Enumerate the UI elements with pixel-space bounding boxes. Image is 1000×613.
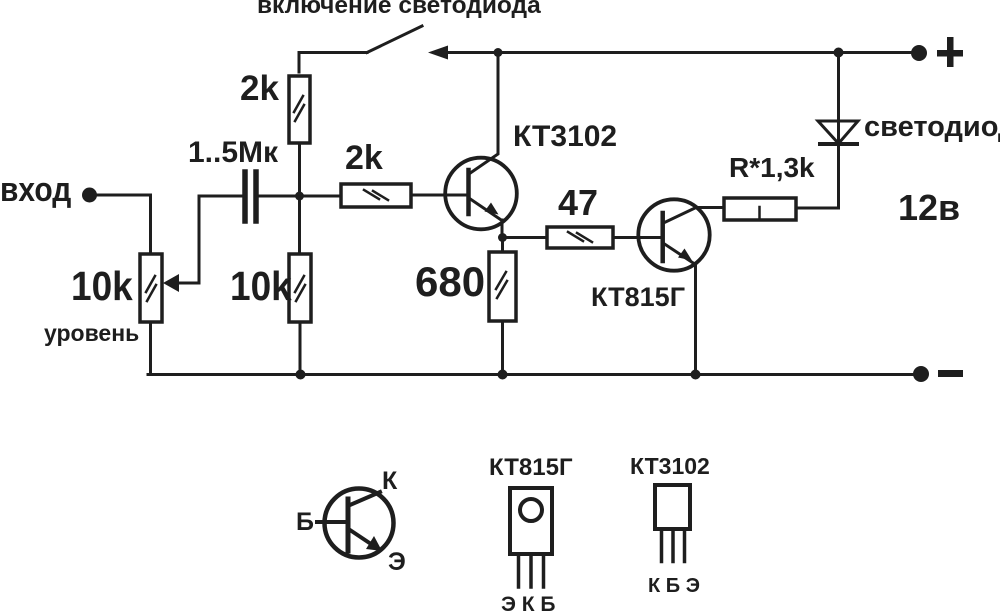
wire: VT2 emitter to - rail bbox=[694, 264, 697, 375]
svg-text:R*1,3k: R*1,3k bbox=[729, 152, 815, 183]
terminal - sign bbox=[938, 370, 963, 377]
resistor R4 hatch bbox=[364, 190, 388, 200]
KT815 package hole bbox=[520, 499, 542, 521]
LED VD1 cathode bar bbox=[820, 142, 857, 146]
resistor R7 tick bbox=[758, 207, 761, 218]
transistor VT1 collector bbox=[471, 53, 498, 173]
svg-text:уровень: уровень bbox=[44, 320, 139, 346]
resistor R3 hatch bbox=[295, 276, 305, 301]
wire: node B down to R5 bbox=[501, 238, 504, 253]
legend transistor symbol circle bbox=[325, 489, 394, 558]
transistor VT2 base bar bbox=[660, 213, 665, 261]
node B junction dot bbox=[498, 233, 507, 242]
svg-text:КТ815Г: КТ815Г bbox=[489, 454, 573, 481]
transistor VT1 emitter bbox=[471, 200, 502, 221]
svg-text:К: К bbox=[382, 467, 398, 495]
transistor VT1 base bar bbox=[466, 170, 471, 214]
resistor R7 R*1,3k body bbox=[724, 198, 796, 220]
terminal + sign bbox=[937, 50, 963, 57]
wire: R4 to VT1 base bbox=[411, 194, 469, 197]
legend emitter arrow bbox=[366, 536, 382, 551]
potentiometer R2 wiper arrow bbox=[163, 274, 179, 292]
terminal input dot bbox=[82, 188, 97, 203]
resistor R4 2k horizontal body bbox=[341, 184, 411, 207]
legend emitter line bbox=[350, 530, 374, 546]
legend base bar bbox=[346, 499, 351, 551]
wire: R5 bottom to - rail bbox=[501, 321, 504, 375]
potentiometer R2 hatch bbox=[146, 276, 156, 301]
wire: capacitor to node A bbox=[258, 195, 341, 198]
resistor R5 680 body bbox=[489, 252, 516, 321]
wire: + rail to LED bbox=[837, 53, 840, 145]
junction dot on - rail below R5 bbox=[498, 370, 508, 380]
KT815 package body bbox=[510, 488, 552, 554]
svg-text:1..5Мк: 1..5Мк bbox=[188, 136, 279, 169]
legend collector line bbox=[350, 492, 380, 505]
wire: R2 bottom to - rail bbox=[149, 322, 152, 375]
switch SA1 left wire bbox=[299, 53, 367, 73]
wire: input to potentiometer top bbox=[96, 195, 151, 254]
wire: emitter to node B bbox=[501, 220, 504, 238]
transistor VT2 collector bbox=[665, 208, 725, 223]
KT815 package legs bbox=[519, 554, 544, 587]
capacitor C1 plates bbox=[245, 172, 256, 221]
KT3102 package body bbox=[655, 485, 690, 529]
resistor R3 10k vertical body bbox=[289, 254, 311, 322]
svg-text:КТ815Г: КТ815Г bbox=[591, 282, 685, 312]
terminal + dot bbox=[911, 45, 927, 61]
resistor R6 hatch bbox=[568, 232, 592, 242]
svg-text:Э: Э bbox=[388, 548, 406, 576]
node A junction dot bbox=[295, 192, 304, 201]
wire: + rail top bbox=[444, 51, 919, 54]
resistor R1 2k vertical body bbox=[289, 76, 310, 143]
transistor VT1 KT3102 circle bbox=[445, 158, 517, 230]
wire: - rail bottom bbox=[148, 373, 919, 376]
svg-text:КТ3102: КТ3102 bbox=[513, 120, 617, 153]
KT3102 package legs bbox=[662, 529, 685, 562]
svg-text:12в: 12в bbox=[898, 187, 960, 228]
junction dot collector rail bbox=[494, 48, 503, 57]
svg-text:Б: Б bbox=[296, 508, 314, 536]
svg-text:КТ3102: КТ3102 bbox=[630, 453, 710, 479]
svg-text:включение светодиода: включение светодиода bbox=[257, 0, 541, 19]
wire: R7 to LED cathode bbox=[796, 144, 839, 208]
switch SA1 contact arrow bbox=[428, 46, 448, 60]
transistor VT2 emitter bbox=[665, 244, 696, 265]
transistor VT1 emitter arrow bbox=[485, 203, 499, 215]
junction dot on - rail below VT2 bbox=[691, 370, 701, 380]
resistor R5 hatch bbox=[496, 272, 507, 298]
svg-text:К Б Э: К Б Э bbox=[648, 575, 700, 597]
svg-text:Э К Б: Э К Б bbox=[501, 593, 556, 613]
wire: R3 bottom to - rail bbox=[299, 322, 302, 375]
wire: R1 bottom to node A bbox=[298, 143, 301, 196]
wire: wiper to capacitor bbox=[176, 196, 243, 283]
legend base stub bbox=[317, 520, 348, 524]
wire: node B right to R6 bbox=[503, 236, 548, 239]
resistor R6 47 body bbox=[547, 227, 613, 248]
svg-text:2k: 2k bbox=[345, 139, 383, 177]
svg-text:вход: вход bbox=[0, 170, 71, 208]
transistor VT2 emitter arrow bbox=[678, 249, 692, 261]
svg-text:680: 680 bbox=[415, 258, 485, 305]
switch SA1 blade bbox=[367, 26, 422, 53]
svg-text:светодиод: светодиод bbox=[864, 111, 1000, 143]
terminal - dot bbox=[913, 366, 929, 382]
wire: R6 to VT2 base bbox=[613, 236, 663, 239]
resistor R1 2k hatch bbox=[294, 96, 304, 121]
junction dot on - rail below R3 bbox=[296, 370, 306, 380]
svg-text:2k: 2k bbox=[240, 69, 279, 108]
transistor VT2 KT815 circle bbox=[638, 199, 709, 270]
junction dot on + rail above LED bbox=[834, 48, 844, 58]
LED VD1 triangle bbox=[818, 121, 858, 144]
svg-text:10k: 10k bbox=[71, 264, 133, 309]
svg-text:10k: 10k bbox=[230, 264, 292, 309]
svg-text:47: 47 bbox=[558, 182, 598, 223]
wire: node A down to R3 bbox=[298, 196, 301, 254]
potentiometer R2 10k body bbox=[140, 254, 162, 322]
